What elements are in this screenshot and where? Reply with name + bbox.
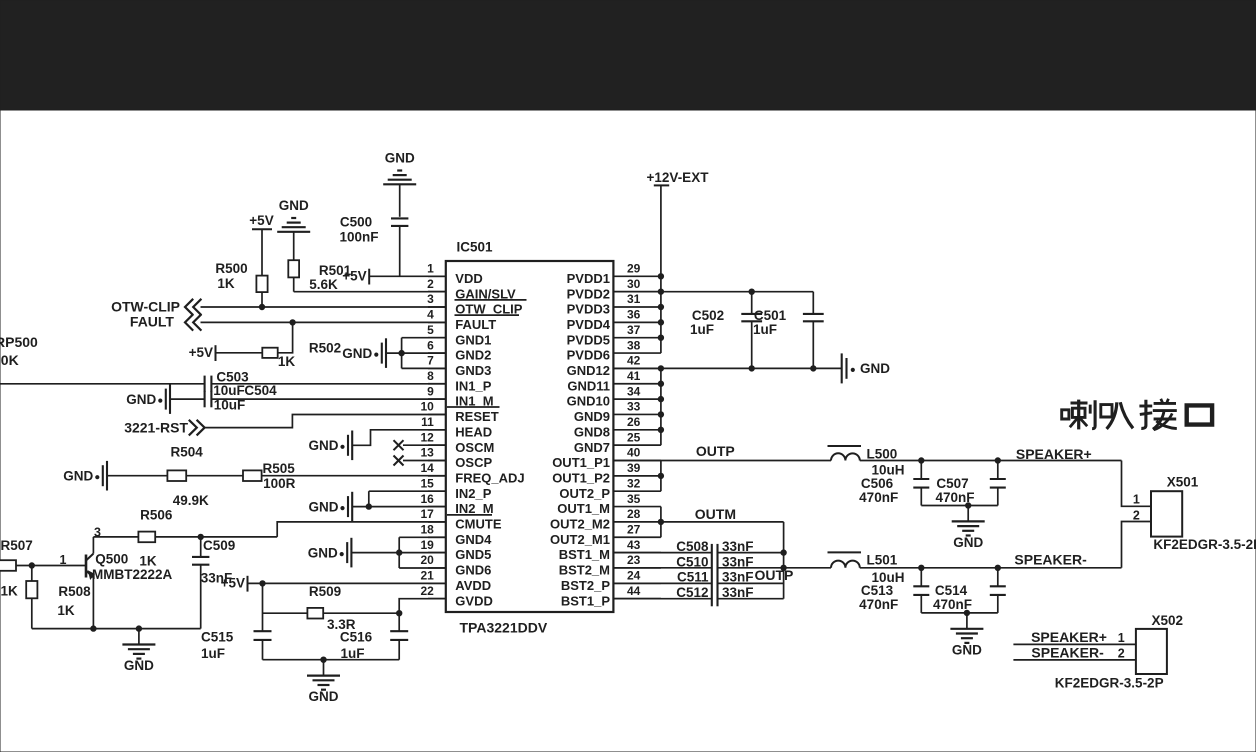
power +5V at R502	[189, 345, 216, 361]
wire OUTP pin40 to L500	[613, 460, 831, 462]
svg-text:C500: C500	[340, 215, 372, 230]
svg-text:19: 19	[420, 538, 434, 552]
svg-text:11: 11	[421, 415, 434, 429]
svg-text:L501: L501	[867, 553, 898, 568]
wire BST2_M pin23 row to L501	[613, 567, 831, 569]
svg-text:X501: X501	[1167, 475, 1199, 490]
svg-text:GND: GND	[309, 438, 339, 453]
IC501 right pin numbers	[627, 262, 641, 598]
svg-text:36: 36	[627, 308, 641, 322]
wire collector to R506	[93, 536, 138, 538]
resistor R502	[262, 348, 277, 358]
svg-text:OUT2_M2: OUT2_M2	[550, 517, 610, 532]
wire R509 left	[263, 612, 308, 614]
svg-text:C516: C516	[340, 630, 373, 645]
capacitor C501	[803, 292, 824, 369]
svg-text:R500: R500	[215, 261, 247, 276]
capacitor C500	[391, 218, 408, 276]
svg-text:GND: GND	[279, 198, 309, 213]
svg-text:33nF: 33nF	[722, 554, 754, 569]
ground GND below C513 C514	[950, 613, 983, 658]
capacitor C503	[205, 376, 446, 392]
capacitor C513	[913, 568, 929, 613]
svg-text:33nF: 33nF	[722, 539, 754, 554]
wire GND4 GND5 GND6 tie	[351, 537, 445, 568]
wire L501 to SPEAKER-	[860, 565, 1122, 570]
wire down to C515 and R509	[262, 583, 264, 631]
svg-text:PVDD6: PVDD6	[567, 348, 610, 363]
svg-text:GND1: GND1	[455, 332, 491, 347]
label C502 1uF	[690, 308, 724, 337]
wire PVDD to decoupling caps	[661, 289, 813, 294]
svg-text:HEAD: HEAD	[455, 424, 492, 439]
no-connect X at OSCM pin12	[394, 440, 446, 450]
svg-text:C507: C507	[936, 476, 968, 491]
node FAULT off-page	[130, 314, 201, 331]
svg-text:49.9K: 49.9K	[173, 493, 209, 508]
svg-text:32: 32	[627, 476, 641, 490]
svg-text:OUT1_P2: OUT1_P2	[552, 470, 610, 485]
wire BST2_P pin24 row	[613, 582, 783, 584]
svg-text:33: 33	[627, 400, 641, 414]
wire R506 to C509 node and CMUTE pin17	[155, 522, 446, 540]
svg-text:40: 40	[627, 446, 641, 460]
svg-text:SPEAKER-: SPEAKER-	[1014, 552, 1087, 568]
resistor R504	[167, 470, 186, 481]
ground GND right of rail	[842, 353, 891, 383]
svg-text:1: 1	[60, 553, 67, 567]
resistor R509	[307, 608, 323, 619]
svg-text:GND6: GND6	[455, 563, 491, 578]
svg-text:OUTM: OUTM	[695, 506, 736, 522]
wire BST1_P pin44 row	[613, 598, 783, 600]
svg-text:GND10: GND10	[567, 394, 610, 409]
svg-text:31: 31	[627, 292, 641, 306]
svg-text:GAIN/SLV: GAIN/SLV	[455, 286, 516, 301]
svg-text:R504: R504	[170, 444, 203, 459]
ground GND above R501	[277, 198, 310, 260]
label C513 470nF	[859, 583, 898, 612]
node 3221-RST off-page	[124, 419, 204, 435]
svg-text:GVDD: GVDD	[455, 593, 493, 608]
svg-text:KF2EDGR-3.5-2P: KF2EDGR-3.5-2P	[1153, 537, 1256, 552]
svg-text:37: 37	[627, 323, 641, 337]
svg-text:BST1_P: BST1_P	[561, 593, 610, 608]
capacitor C506	[913, 461, 929, 506]
ground GND at GND4-GND6 pins	[308, 538, 352, 568]
svg-text:C502: C502	[692, 308, 724, 323]
wire C506 C507 ground rail	[921, 503, 998, 508]
label R500 1K	[215, 261, 247, 291]
svg-text:41: 41	[627, 369, 641, 383]
ground GND at IN2_M pin16	[309, 492, 353, 522]
wire OTW-CLIP to pin3	[201, 304, 446, 309]
wire PVDD bus	[658, 274, 663, 354]
svg-text:16: 16	[420, 492, 434, 506]
svg-text:IC501: IC501	[457, 240, 494, 255]
svg-text:GND2: GND2	[455, 348, 491, 363]
wire +5V to AVDD pin21	[248, 581, 446, 586]
svg-text:GND: GND	[309, 499, 339, 514]
label C504 10uF	[214, 383, 277, 412]
wire HEAD pin11	[352, 430, 446, 446]
svg-text:1uF: 1uF	[753, 322, 777, 337]
svg-text:GND: GND	[63, 469, 93, 484]
svg-text:6: 6	[427, 338, 434, 352]
svg-text:GND: GND	[308, 545, 338, 560]
svg-text:GND: GND	[860, 361, 890, 376]
wire GND bus pins 41 34 33 26 25	[658, 368, 663, 445]
svg-text:C514: C514	[935, 583, 968, 598]
label RP500 10K at left edge	[0, 334, 38, 368]
svg-text:1K: 1K	[57, 603, 75, 618]
svg-text:9: 9	[427, 384, 434, 398]
svg-text:R502: R502	[309, 340, 341, 355]
power +5V above R500	[249, 213, 273, 276]
svg-text:OUTP: OUTP	[755, 567, 794, 583]
svg-text:1uF: 1uF	[201, 646, 225, 661]
no-connect X at OSCP pin13	[394, 456, 446, 466]
svg-text:21: 21	[420, 569, 434, 583]
svg-text:28: 28	[627, 507, 641, 521]
svg-text:C501: C501	[754, 308, 787, 323]
wire +5V to R502	[216, 352, 263, 354]
ground GND below C506 C507	[952, 506, 985, 551]
svg-text:C504: C504	[244, 383, 277, 398]
svg-text:38: 38	[627, 338, 641, 352]
wire VDD pin1	[369, 275, 446, 277]
svg-text:PVDD4: PVDD4	[567, 317, 611, 332]
svg-text:470nF: 470nF	[933, 597, 972, 612]
svg-text:10uF: 10uF	[214, 397, 246, 412]
svg-text:5: 5	[427, 323, 434, 337]
label C515 1uF	[201, 629, 234, 661]
connector X501	[1151, 491, 1182, 536]
svg-text:1: 1	[1133, 493, 1140, 507]
svg-text:R508: R508	[58, 584, 91, 599]
svg-text:OUT1_P1: OUT1_P1	[552, 455, 610, 470]
IC501 left pin numbers 1-22	[420, 262, 434, 598]
transistor Q500 MMBT2222A	[86, 537, 94, 629]
wire OUT1_P2 OUT2_P tie	[658, 461, 663, 492]
IC501 right pin name labels	[550, 271, 611, 608]
svg-text:GND4: GND4	[455, 532, 492, 547]
svg-text:TPA3221DDV: TPA3221DDV	[460, 620, 548, 636]
inductor L500	[828, 446, 862, 461]
ground GND below Q500	[122, 629, 155, 674]
svg-text:SPEAKER-: SPEAKER-	[1031, 645, 1104, 661]
svg-text:SPEAKER+: SPEAKER+	[1031, 629, 1107, 645]
resistor R500	[256, 276, 267, 307]
svg-text:R505: R505	[262, 461, 295, 476]
capacitor C516	[390, 613, 408, 660]
svg-text:PVDD3: PVDD3	[567, 302, 610, 317]
svg-text:100nF: 100nF	[339, 230, 378, 245]
svg-text:10: 10	[420, 400, 434, 414]
resistor R505	[243, 470, 262, 481]
svg-text:33nF: 33nF	[722, 570, 754, 585]
node OTW-CLIP off-page	[111, 298, 201, 315]
svg-text:Q500: Q500	[95, 552, 128, 567]
svg-text:GND3: GND3	[455, 363, 491, 378]
svg-text:100R: 100R	[263, 476, 296, 491]
svg-text:GND: GND	[124, 658, 154, 673]
wire X501 pin2 to SPEAKER-	[1122, 522, 1152, 568]
svg-text:14: 14	[420, 461, 434, 475]
svg-text:10K: 10K	[0, 352, 19, 368]
ground GND at GND1-GND3 pins	[342, 338, 386, 368]
svg-text:X502: X502	[1152, 613, 1184, 628]
wire GND to R504	[107, 475, 167, 477]
wire L500 to SPEAKER+	[860, 458, 1122, 463]
connector X502	[1136, 629, 1167, 674]
label C507 470nF	[935, 476, 974, 505]
svg-text:470nF: 470nF	[859, 597, 898, 612]
svg-text:IN2_P: IN2_P	[455, 486, 491, 501]
resistor R501	[288, 260, 299, 292]
svg-text:18: 18	[420, 522, 434, 536]
label C514 470nF	[933, 583, 972, 612]
svg-text:2: 2	[427, 277, 434, 291]
svg-text:C515: C515	[201, 629, 234, 644]
ground GND at IN1_M	[126, 384, 170, 414]
svg-text:44: 44	[627, 584, 641, 598]
svg-text:BST1_M: BST1_M	[559, 547, 610, 562]
svg-text:25: 25	[627, 430, 641, 444]
capacitor C515	[254, 631, 272, 660]
svg-text:C508: C508	[676, 539, 709, 554]
power +5V at AVDD pin21	[221, 575, 248, 591]
svg-text:2: 2	[1133, 508, 1140, 522]
svg-text:OTW-CLIP: OTW-CLIP	[111, 298, 180, 314]
svg-text:10uF: 10uF	[213, 383, 245, 398]
resistor R508	[26, 566, 37, 629]
wire GND12 rail pin42	[613, 366, 841, 371]
svg-text:24: 24	[627, 569, 641, 583]
resistor R506	[138, 532, 155, 543]
wire SPEAKER- to X502 pin2	[1013, 659, 1136, 661]
svg-text:IN2_M: IN2_M	[455, 501, 493, 516]
svg-text:FAULT: FAULT	[130, 314, 175, 330]
svg-text:C503: C503	[216, 369, 249, 384]
wire IN2_P pin15	[369, 491, 446, 506]
svg-text:1K: 1K	[1, 584, 19, 599]
wire R509 to GVDD pin22	[323, 599, 446, 616]
svg-text:GND: GND	[126, 392, 156, 407]
label R501 5.6K	[309, 263, 351, 292]
svg-text:PVDD1: PVDD1	[567, 271, 610, 286]
ground GND above C500	[383, 151, 416, 217]
label C500 100nF	[339, 215, 378, 245]
svg-text:34: 34	[627, 384, 641, 398]
wire BST1_M pin43 row	[613, 552, 783, 554]
title 喇叭接口 speaker interface	[1062, 399, 1212, 430]
label C516 1uF	[340, 630, 373, 662]
wire 3221-RST to RESET pin10	[205, 415, 446, 428]
svg-text:PVDD2: PVDD2	[567, 286, 610, 301]
svg-text:C511: C511	[677, 570, 709, 585]
label C501 1uF	[753, 308, 787, 337]
svg-text:1K: 1K	[217, 276, 235, 291]
svg-text:OUT1_M: OUT1_M	[557, 501, 610, 516]
svg-text:17: 17	[420, 507, 434, 521]
svg-text:1: 1	[427, 262, 434, 276]
svg-text:GND11: GND11	[567, 378, 610, 393]
svg-text:BST2_M: BST2_M	[559, 563, 610, 578]
power +12V-EXT	[647, 170, 710, 276]
IC501 left pin name labels	[447, 271, 527, 608]
svg-text:C513: C513	[861, 583, 894, 598]
capacitor C504	[170, 391, 446, 407]
svg-text:C510: C510	[676, 554, 708, 569]
svg-text:RP500: RP500	[0, 334, 38, 350]
svg-text:GND9: GND9	[574, 409, 610, 424]
svg-text:GND: GND	[953, 535, 983, 550]
top dark header bar	[0, 0, 1256, 110]
svg-text:GND8: GND8	[574, 424, 610, 439]
svg-text:SPEAKER+: SPEAKER+	[1016, 446, 1092, 462]
label C503 10uF	[213, 369, 249, 398]
svg-text:22: 22	[420, 584, 434, 598]
svg-text:PVDD5: PVDD5	[567, 332, 610, 347]
svg-text:KF2EDGR-3.5-2P: KF2EDGR-3.5-2P	[1055, 675, 1164, 690]
svg-text:OUT2_P: OUT2_P	[559, 486, 610, 501]
svg-text:27: 27	[627, 522, 641, 536]
capacitor C507	[990, 461, 1006, 506]
svg-text:CMUTE: CMUTE	[455, 517, 502, 532]
capacitor C514	[990, 568, 1006, 613]
svg-text:GND12: GND12	[567, 363, 610, 378]
svg-text:35: 35	[627, 492, 641, 506]
svg-text:3221-RST: 3221-RST	[124, 419, 188, 435]
svg-text:C506: C506	[861, 476, 894, 491]
wire IN2_M pin16	[352, 504, 446, 509]
label C506 470nF	[859, 476, 898, 505]
wire R502 to FAULT net	[278, 322, 293, 352]
resistor R507	[0, 560, 86, 571]
wire OUTM tie pins 35 28 27	[658, 507, 663, 538]
svg-text:1: 1	[1118, 631, 1125, 645]
wire C513 C514 ground rail	[921, 610, 998, 615]
svg-text:2: 2	[1118, 647, 1125, 661]
svg-text:FREQ_ADJ: FREQ_ADJ	[455, 470, 524, 485]
svg-text:1K: 1K	[139, 553, 157, 568]
svg-text:+5V: +5V	[221, 575, 245, 590]
svg-text:GND: GND	[342, 346, 372, 361]
power +5V at VDD pin1	[342, 268, 369, 284]
wire SPEAKER+ to X501 pin1	[1122, 461, 1152, 507]
svg-text:OUTP: OUTP	[696, 443, 735, 459]
svg-text:OUT2_M1: OUT2_M1	[550, 532, 610, 547]
capacitor C502	[741, 292, 762, 369]
wire SPEAKER+ to X502 pin1	[1013, 643, 1136, 645]
svg-text:15: 15	[420, 476, 434, 490]
svg-text:L500: L500	[867, 446, 898, 461]
wire C515 C516 ground rail	[263, 657, 400, 662]
svg-text:26: 26	[627, 415, 641, 429]
svg-text:12: 12	[420, 430, 434, 444]
IC501 left pin stubs	[428, 276, 446, 598]
svg-text:3: 3	[427, 292, 434, 306]
inductor L501	[828, 552, 862, 567]
svg-text:+5V: +5V	[342, 268, 366, 283]
svg-text:RESET: RESET	[455, 409, 498, 424]
svg-text:BST2_P: BST2_P	[561, 578, 610, 593]
svg-text:GND5: GND5	[455, 547, 491, 562]
svg-text:30: 30	[627, 277, 641, 291]
wire R504 to R505	[186, 475, 243, 477]
wire IN1_P input	[0, 383, 205, 385]
svg-text:+12V-EXT: +12V-EXT	[647, 170, 710, 185]
wire emitter ground rail	[32, 626, 201, 631]
svg-text:+5V: +5V	[249, 213, 273, 228]
svg-text:VDD: VDD	[455, 271, 482, 286]
wire OUTM to bootstrap node	[661, 522, 786, 599]
svg-text:39: 39	[627, 461, 641, 475]
svg-text:OSCM: OSCM	[455, 440, 494, 455]
svg-text:AVDD: AVDD	[455, 578, 491, 593]
svg-text:1K: 1K	[278, 354, 296, 369]
svg-text:GND: GND	[385, 151, 415, 166]
capacitor C509	[192, 537, 209, 629]
svg-text:13: 13	[420, 446, 434, 460]
ground GND at HEAD pin11	[309, 431, 353, 461]
svg-text:33nF: 33nF	[722, 585, 754, 600]
svg-text:4: 4	[427, 308, 434, 322]
svg-text:5.6K: 5.6K	[309, 277, 338, 292]
op-amp U1 IC501 TPA3221DDV body	[446, 261, 614, 612]
svg-text:FAULT: FAULT	[455, 317, 496, 332]
svg-text:MMBT2222A: MMBT2222A	[92, 567, 173, 582]
svg-text:7: 7	[427, 354, 434, 368]
svg-text:C509: C509	[203, 538, 235, 553]
svg-text:470nF: 470nF	[859, 490, 898, 505]
IC501 right pin stubs	[613, 276, 661, 598]
svg-text:20: 20	[420, 553, 434, 567]
svg-text:GND: GND	[309, 689, 339, 704]
svg-text:29: 29	[627, 262, 641, 276]
svg-text:R506: R506	[140, 508, 173, 523]
svg-text:IN1_P: IN1_P	[455, 378, 491, 393]
wire GND1 GND2 GND3 tie	[386, 338, 446, 369]
svg-text:C512: C512	[676, 585, 708, 600]
svg-text:43: 43	[627, 538, 641, 552]
svg-text:OSCP: OSCP	[455, 455, 492, 470]
ground GND at FREQ_ADJ chain	[63, 461, 107, 491]
wire R505 to FREQ_ADJ pin14	[262, 475, 446, 477]
svg-text:GND: GND	[952, 642, 982, 657]
svg-text:R507: R507	[1, 538, 33, 553]
svg-text:23: 23	[627, 553, 641, 567]
label R508 1K	[57, 584, 91, 618]
wire GAIN/SLV pin2	[294, 291, 446, 293]
svg-text:1uF: 1uF	[690, 322, 714, 337]
svg-text:+5V: +5V	[189, 345, 213, 360]
svg-text:42: 42	[627, 354, 641, 368]
capacitor C508 C510 C511 C512 shared plates	[712, 544, 718, 606]
svg-text:GND7: GND7	[574, 440, 610, 455]
wire FAULT to pin4	[201, 320, 446, 325]
svg-text:8: 8	[427, 369, 434, 383]
svg-text:R509: R509	[309, 584, 341, 599]
ground GND below C515 C516	[307, 660, 340, 705]
